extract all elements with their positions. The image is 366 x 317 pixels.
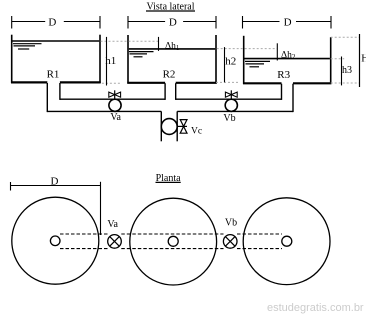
delta-h2 tick [276,43,278,60]
pipe horizontal upper line [60,98,165,100]
svg-text:D: D [169,17,177,29]
svg-text:H: H [361,53,366,64]
svg-text:estudegratis.com.br: estudegratis.com.br [267,302,364,314]
pipe horizontal lower line right segment [177,110,293,112]
plan tank 3 circle [243,198,330,285]
plan tank 2 center pipe circle [168,236,178,246]
svg-text:h1: h1 [105,55,116,67]
svg-text:D: D [284,17,292,29]
valve Vc bowtie [180,120,187,134]
svg-text:Vb: Vb [223,113,235,124]
valve Vb stem [230,90,232,99]
plan valve Vb (circle with X) [223,235,237,249]
h1 dimension line [106,37,108,86]
H dimension line [359,34,361,87]
plan tank 3 center pipe circle [282,236,292,246]
delta-h1 tick [158,37,160,51]
pipe horizontal lower line left segment [47,110,161,112]
dimension D3 over tank R3 [243,16,332,29]
plan valve Va (circle with X) [108,235,122,249]
svg-text:Vc: Vc [191,126,202,136]
plan dimension D [11,182,101,191]
dimension D2 over tank R2 [128,16,216,29]
svg-text:h3: h3 [342,65,352,76]
svg-text:D: D [48,17,56,29]
pipe horizontal upper line right part [176,98,282,100]
h3 dimension line [341,57,343,86]
plan pipe dashed bottom line [60,248,282,250]
tank R1 water surface [13,41,100,49]
plan tank 1 center pipe circle [50,236,60,246]
pipe tank3 drain elbow [282,84,294,112]
pump circle Vc [161,119,177,135]
tank R2 water surface [129,49,215,57]
h1 reference dashes (gray) [101,41,159,83]
tank R3 water surface [245,59,330,67]
plan tank 1 circle [12,197,99,284]
svg-text:R2: R2 [163,69,176,81]
plan dimension extension line [100,182,102,235]
pump circle Vb [225,99,237,111]
dimension D1 over tank R1 [12,16,100,29]
svg-text:Δh2: Δh2 [281,51,296,62]
svg-text:R3: R3 [277,69,290,81]
h2 reference dashes (gray) [216,49,277,83]
valve Va stem [114,90,116,99]
valve Vc stem [177,125,187,127]
valve Va bowtie [109,92,121,97]
svg-text:Δh1: Δh1 [165,42,180,53]
svg-text:h2: h2 [225,56,236,68]
tank R3 walls and bottom [243,36,331,84]
plan tank 2 circle [130,198,217,285]
tank R1 walls and bottom [11,35,101,83]
h2 dimension line [224,47,226,82]
H reference dashes (gray) [331,37,360,83]
svg-text:R1: R1 [47,68,60,80]
svg-text:D: D [51,176,59,188]
svg-text:Va: Va [110,112,121,123]
drain pipe below (Vc branch) [161,111,177,141]
valve Vb bowtie [225,92,237,97]
pump circle Va [109,99,121,111]
h3 reference dash (gray) [331,58,345,60]
svg-text:Va: Va [107,219,118,230]
plan pipe dashed top line [60,233,282,235]
tank R2 walls and bottom [127,35,216,84]
pipe tank2 drain stub [165,83,176,100]
pipe tank1 drain elbow [47,83,60,112]
svg-text:Vb: Vb [225,218,237,229]
